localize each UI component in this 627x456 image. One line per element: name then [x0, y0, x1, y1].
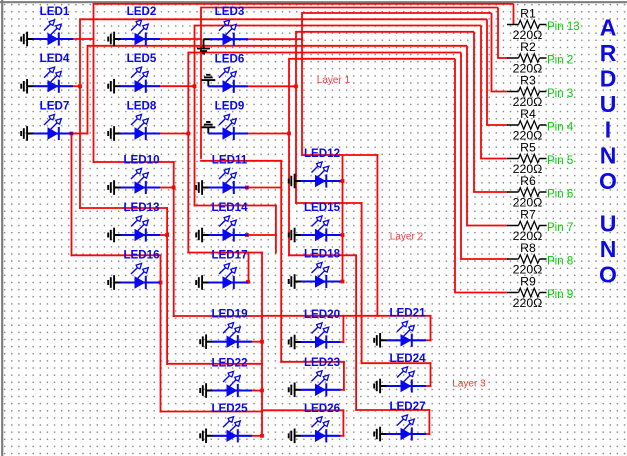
wire: ground lead (LED16)	[114, 282, 120, 284]
net N5 feeder (LED5-R5) horizontal	[195, 25, 482, 27]
wire: ground lead (LED12)	[295, 180, 301, 182]
junction dot (71.5,133.5)	[70, 132, 74, 136]
LED emission arrows (LED4)	[44, 71, 50, 77]
diode cathode bar (LED26)	[325, 429, 327, 442]
wire: cathode lead (LED26)	[301, 435, 341, 437]
LED LED9 (diode symbol with emission arrows)	[201, 100, 248, 141]
svg-text:Pin 6: Pin 6	[547, 188, 573, 200]
diode cathode bar (LED4)	[58, 80, 60, 93]
svg-text:LED27: LED27	[389, 400, 425, 413]
diode cathode bar (LED18)	[325, 275, 327, 288]
ground symbol above wire (LED6)	[207, 80, 209, 86]
ground symbol (LED4)	[20, 84, 22, 89]
wire: resistor right lead (R7)	[540, 225, 547, 227]
wire: cathode lead (LED8)	[121, 132, 161, 134]
LED emission arrows (LED13)	[131, 220, 137, 226]
net N2 feeder (LED2-R2) horizontal	[201, 7, 498, 9]
svg-text:R1: R1	[520, 7, 536, 21]
junction dot (248.0,281.8)	[246, 280, 250, 284]
diode triangle (LED20)	[315, 336, 326, 348]
wire anode stub LED7	[73, 133, 88, 135]
LED LED14 (diode symbol with emission arrows)	[196, 201, 248, 242]
ground symbol (LED17)	[195, 280, 197, 285]
svg-text:Pin 3: Pin 3	[547, 88, 573, 100]
wire through LED12 label	[301, 154, 378, 156]
LED emission arrows (LED16)	[131, 268, 137, 274]
net N9 feeder (LED9-R9) horizontal	[289, 58, 455, 60]
wire: cathode lead (LED25)	[213, 435, 253, 437]
diode cathode bar (LED6)	[233, 80, 235, 93]
wire: ground lead (LED18)	[295, 281, 301, 283]
wire through LED22 label	[166, 363, 263, 365]
svg-text:U: U	[600, 211, 617, 237]
wire vertical LED20 hook x343.4	[342, 315, 344, 343]
diode cathode bar (LED9)	[233, 127, 235, 140]
wire through LED23 label	[280, 361, 345, 363]
diode triangle (LED12)	[315, 175, 326, 187]
svg-text:LED24: LED24	[389, 352, 426, 365]
wire: cathode lead (LED2)	[121, 38, 161, 40]
LED emission arrows (LED18)	[312, 267, 318, 273]
wire vertical N2 x201	[200, 7, 202, 159]
LED LED7 (diode symbol with emission arrows)	[21, 100, 73, 141]
wire vertical LED10 chain x173.7	[173, 161, 175, 317]
diode triangle (LED23)	[315, 384, 326, 396]
net N7 feeder (LED7-R7) horizontal	[88, 45, 468, 47]
wire: resistor left lead (R4)	[507, 124, 519, 126]
LED emission arrows (LED8)	[131, 119, 137, 125]
svg-text:A: A	[600, 14, 617, 40]
LED LED12 (diode symbol with emission arrows)	[289, 147, 341, 188]
LED LED25 (diode symbol with emission arrows)	[200, 402, 252, 443]
border frame top	[0, 1, 627, 3]
svg-text:Layer 3: Layer 3	[452, 379, 486, 390]
LED LED6 (diode symbol with emission arrows)	[201, 52, 248, 93]
wire anode stub LED9	[248, 133, 290, 135]
diode triangle (LED17)	[223, 276, 234, 288]
LED LED1 (diode symbol with emission arrows)	[21, 5, 73, 46]
LED LED5 (diode symbol with emission arrows)	[108, 52, 160, 93]
wire: resistor left lead (R9)	[507, 292, 519, 294]
svg-text:I: I	[605, 117, 611, 143]
wire through LED15 label	[295, 202, 362, 204]
wire through LED14 label	[194, 205, 277, 207]
LED LED23 (diode symbol with emission arrows)	[289, 356, 341, 397]
diode triangle (LED19)	[227, 336, 238, 348]
diode triangle (LED15)	[315, 229, 326, 241]
svg-text:Pin 5: Pin 5	[547, 155, 573, 167]
resistor zigzag body (R6)	[519, 188, 540, 196]
resistor zigzag body (R1)	[519, 20, 540, 28]
wire: cathode lead (LED12)	[301, 180, 341, 182]
ground symbol (LED12)	[288, 179, 290, 184]
net N5 feeder (LED5-R5) stub to resistor	[480, 158, 507, 160]
svg-text:220Ω: 220Ω	[513, 296, 543, 310]
diode triangle (LED24)	[401, 380, 412, 392]
net N1 feeder (LED1-R1) drop	[513, 4, 515, 25]
ground symbol (LED2)	[107, 37, 109, 42]
wire vertical c4 chain x342.5	[342, 154, 344, 282]
svg-text:LED7: LED7	[40, 100, 70, 113]
LED LED26 (diode symbol with emission arrows)	[289, 402, 341, 443]
net N3 feeder (LED3-R3) drop	[491, 13, 493, 92]
wire: resistor right lead (R4)	[540, 124, 547, 126]
wire: ground lead (LED22)	[206, 390, 212, 392]
wire through LED18 label	[288, 254, 357, 256]
LED emission arrows (LED25)	[223, 421, 229, 427]
wire through LED24 label	[361, 362, 432, 364]
wire: ground lead (LED8)	[114, 133, 120, 135]
diode cathode bar (LED11)	[233, 181, 235, 194]
LED LED21 (diode symbol with emission arrows)	[374, 306, 426, 347]
wire: cathode lead (LED17)	[209, 281, 249, 283]
ground symbol above wire (LED9)	[207, 127, 209, 133]
ground symbol (LED14)	[195, 233, 197, 238]
wire: ground lead (LED10)	[114, 187, 120, 189]
wire: cathode lead (LED19)	[213, 341, 253, 343]
wire: ground lead (LED3)	[204, 38, 210, 40]
wire anode stub LED27	[426, 433, 430, 435]
wire anode stub LED12	[341, 180, 344, 182]
LED LED24 (diode symbol with emission arrows)	[374, 352, 426, 393]
svg-text:U: U	[600, 91, 617, 117]
wire anode stub LED19	[252, 341, 263, 343]
resistor zigzag body (R9)	[519, 288, 540, 296]
wire: ground lead (LED26)	[295, 435, 301, 437]
resistor zigzag body (R3)	[519, 87, 540, 95]
wire anode stub LED21	[426, 339, 431, 341]
svg-text:LED12: LED12	[304, 147, 340, 160]
wire anode stub LED26	[341, 435, 345, 437]
wire: ground lead (LED13)	[114, 234, 120, 236]
svg-text:LED4: LED4	[40, 52, 70, 65]
junction dot (342.5,235.0)	[341, 233, 345, 237]
wire anode stub LED17	[248, 282, 250, 284]
junction dot (247.0,187.5)	[245, 186, 249, 190]
wire anode stub LED13	[160, 234, 168, 236]
LED emission arrows (LED26)	[312, 421, 318, 427]
ground symbol (LED15)	[288, 233, 290, 238]
LED LED4 (diode symbol with emission arrows)	[21, 52, 73, 93]
wire vertical LED13 chain x167.1	[166, 207, 168, 365]
diode triangle (LED6)	[223, 80, 234, 92]
diode triangle (LED26)	[315, 430, 326, 442]
wire anode stub LED23	[341, 389, 345, 391]
wire vertical LED23 hook x343.9	[343, 361, 345, 391]
wire: cathode lead (LED3)	[210, 38, 249, 40]
LED LED10 (diode symbol with emission arrows)	[108, 154, 160, 195]
wire anode stub LED5	[160, 85, 195, 87]
wire anode stub LED22	[252, 390, 263, 392]
wire vertical LED24 hook x430.5	[430, 362, 432, 387]
diode cathode bar (LED21)	[411, 334, 413, 347]
LED emission arrows (LED9)	[219, 119, 225, 125]
LED emission arrows (LED1)	[44, 24, 50, 30]
wire: cathode lead (LED6)	[208, 85, 248, 87]
junction dot (167.1,235.0)	[165, 233, 169, 237]
wire: ground lead (LED1)	[27, 38, 33, 40]
wire: cathode lead (LED11)	[209, 186, 249, 188]
net N6 feeder (LED6-R6) drop	[473, 32, 475, 192]
wire: resistor right lead (R3)	[540, 91, 547, 93]
svg-text:LED1: LED1	[40, 5, 70, 18]
svg-text:Pin 4: Pin 4	[547, 121, 574, 133]
ground symbol (LED11)	[195, 185, 197, 190]
wire anode stub LED16	[160, 282, 162, 284]
wire: cathode lead (LED14)	[209, 234, 249, 236]
net N6 feeder (LED6-R6) horizontal	[296, 31, 474, 33]
LED LED11 (diode symbol with emission arrows)	[196, 154, 248, 195]
LED emission arrows (LED3)	[219, 24, 225, 30]
svg-text:LED10: LED10	[123, 154, 159, 167]
wire: cathode lead (LED23)	[301, 389, 341, 391]
diode triangle (LED21)	[401, 334, 412, 346]
junction dot (160.5,282.5)	[159, 281, 163, 285]
wire anode stub LED8	[160, 133, 189, 135]
wire: ground lead (LED15)	[295, 234, 301, 236]
junction dot (262.0,435.8)	[260, 434, 264, 438]
wire anode stub LED10	[160, 187, 175, 189]
wire through LED11 label	[200, 160, 282, 162]
wire: ground lead (LED20)	[295, 341, 301, 343]
diode triangle (LED27)	[401, 428, 412, 440]
net N4 feeder (LED4-R4) drop	[486, 19, 488, 125]
ground symbol (LED22)	[199, 388, 201, 393]
LED LED27 (diode symbol with emission arrows)	[374, 400, 426, 441]
resistor R1 220ohm with pin label	[507, 7, 580, 43]
wire vertical LED26 hook x343.4	[342, 409, 344, 436]
net N9 feeder (LED9-R9) stub to resistor	[454, 292, 507, 294]
LED emission arrows (LED27)	[397, 419, 403, 425]
net N8 feeder (LED8-R8) stub to resistor	[460, 258, 507, 260]
wire: ground lead (LED25)	[206, 435, 212, 437]
wire anode stub LED4	[73, 85, 81, 87]
ground symbol (LED16)	[107, 280, 109, 285]
svg-text:R5: R5	[520, 141, 536, 155]
junction dot (173.7,187.5)	[172, 186, 176, 190]
wire through LED10 label	[93, 161, 175, 163]
net N6 feeder (LED6-R6) stub to resistor	[473, 191, 507, 193]
wire: cathode lead (LED1)	[34, 38, 74, 40]
resistor R8 220ohm with pin label	[507, 241, 573, 277]
wire anode stub LED15	[341, 234, 344, 236]
svg-text:O: O	[599, 262, 617, 288]
diode cathode bar (LED22)	[237, 384, 239, 397]
svg-text:LED9: LED9	[215, 100, 245, 113]
wire anode stub LED20	[341, 341, 345, 343]
resistor R2 220ohm with pin label	[507, 40, 573, 76]
diode cathode bar (LED25)	[237, 429, 239, 442]
svg-text:LED26: LED26	[304, 402, 341, 415]
resistor R6 220ohm with pin label	[507, 174, 573, 210]
wire: ground lead (LED23)	[295, 389, 301, 391]
svg-text:LED14: LED14	[211, 201, 248, 214]
LED emission arrows (LED22)	[223, 376, 229, 382]
LED LED18 (diode symbol with emission arrows)	[289, 248, 341, 289]
wire vertical LED27 hook x429.4	[428, 409, 430, 435]
svg-text:Layer 2: Layer 2	[390, 231, 424, 242]
wire: cathode lead (LED7)	[34, 132, 74, 134]
net N7 feeder (LED7-R7) stub to resistor	[466, 225, 507, 227]
diode cathode bar (LED3)	[233, 33, 235, 46]
diode cathode bar (LED8)	[145, 127, 147, 140]
diode cathode bar (LED13)	[145, 228, 147, 241]
ground symbol (LED20)	[288, 340, 290, 345]
LED emission arrows (LED6)	[219, 72, 225, 78]
resistor R7 220ohm with pin label	[507, 208, 573, 244]
wire vertical N7-up x87.5	[87, 45, 89, 134]
wire through LED13 label	[79, 207, 168, 209]
svg-text:R7: R7	[520, 208, 536, 222]
LED emission arrows (LED10)	[131, 173, 137, 179]
svg-text:LED19: LED19	[211, 308, 248, 321]
wire: cathode lead (LED21)	[387, 339, 427, 341]
wire through LED26 label	[261, 409, 344, 411]
svg-text:R9: R9	[520, 275, 536, 289]
diode triangle (LED2)	[135, 33, 146, 45]
wire: resistor left lead (R3)	[507, 91, 519, 93]
diode cathode bar (LED1)	[58, 32, 60, 45]
wire through LED19 label	[173, 315, 263, 317]
junction dot (194.5,86.2)	[193, 84, 197, 88]
svg-text:R2: R2	[520, 40, 536, 54]
wire: ground lead (LED24)	[380, 385, 386, 387]
ground symbol below wire (LED3)	[203, 39, 205, 48]
resistor R3 220ohm with pin label	[507, 74, 573, 110]
wire: cathode lead (LED15)	[301, 234, 341, 236]
LED LED2 (diode symbol with emission arrows)	[108, 5, 160, 46]
wire vertical LED16 chain x160.5	[160, 254, 162, 412]
wire through LED27 label	[355, 409, 430, 411]
diode cathode bar (LED10)	[145, 181, 147, 194]
LED emission arrows (LED5)	[131, 71, 137, 77]
junction dot (80,86.2)	[78, 84, 82, 88]
wire: ground lead (LED4)	[27, 85, 33, 87]
resistor zigzag body (R7)	[519, 221, 540, 229]
wire: ground lead (LED5)	[114, 85, 120, 87]
resistor zigzag body (R8)	[519, 255, 540, 263]
LED LED3 (diode symbol with emission arrows)	[197, 5, 248, 53]
junction dot (247.0,235.0)	[245, 233, 249, 237]
resistor zigzag body (R5)	[519, 154, 540, 162]
wire: cathode lead (LED24)	[387, 385, 427, 387]
wire vertical N4 x80	[79, 18, 81, 209]
wire through LED16 label	[71, 254, 162, 256]
wire anode stub LED24	[426, 385, 431, 387]
ground symbol (LED25)	[199, 433, 201, 438]
svg-text:N: N	[600, 236, 617, 262]
wire vertical LED21 hook x430.5	[430, 315, 432, 341]
diode cathode bar (LED7)	[58, 127, 60, 140]
wire: ground lead (LED14)	[202, 234, 208, 236]
wire vertical c4-c5 link x361.6	[361, 202, 363, 364]
diode triangle (LED3)	[223, 33, 234, 45]
diode cathode bar (LED12)	[325, 174, 327, 187]
diode triangle (LED11)	[223, 181, 234, 193]
wire: cathode lead (LED5)	[121, 85, 161, 87]
wire vertical c4-c5 link x377.4	[376, 154, 378, 317]
svg-text:Pin 9: Pin 9	[547, 289, 573, 301]
LED emission arrows (LED7)	[44, 119, 50, 125]
wire: cathode lead (LED16)	[121, 281, 161, 283]
net N9 feeder (LED9-R9) drop	[454, 59, 456, 293]
junction dot (296,86.3)	[294, 84, 298, 88]
border frame left	[1, 0, 3, 456]
wire vertical N6 x296	[295, 31, 297, 204]
wire: cathode lead (LED18)	[301, 280, 341, 282]
wire: cathode lead (LED13)	[121, 234, 161, 236]
wire: resistor right lead (R9)	[540, 292, 547, 294]
diode triangle (LED8)	[135, 127, 146, 139]
svg-text:Pin 13: Pin 13	[547, 21, 580, 33]
LED emission arrows (LED14)	[219, 220, 225, 226]
LED emission arrows (LED11)	[219, 173, 225, 179]
diode cathode bar (LED19)	[237, 335, 239, 348]
diode cathode bar (LED20)	[325, 335, 327, 348]
wire: ground lead (LED27)	[380, 433, 386, 435]
wire: cathode lead (LED22)	[213, 389, 253, 391]
svg-text:LED18: LED18	[304, 248, 341, 261]
LED LED13 (diode symbol with emission arrows)	[108, 201, 160, 242]
wire: resistor right lead (R8)	[540, 258, 547, 260]
diode triangle (LED4)	[48, 80, 59, 92]
wire: resistor right lead (R5)	[540, 158, 547, 160]
svg-text:LED15: LED15	[304, 201, 341, 214]
ground symbol (LED23)	[288, 387, 290, 392]
junction dot (188.3,133.5)	[186, 132, 190, 136]
diode cathode bar (LED16)	[145, 276, 147, 289]
svg-text:R8: R8	[520, 241, 536, 255]
wire: ground lead (LED7)	[27, 133, 33, 135]
svg-text:LED16: LED16	[123, 249, 160, 262]
wire vertical N3 x302	[301, 12, 303, 156]
wire anode stub LED18	[341, 281, 344, 283]
junction dot (262.0,390.5)	[260, 389, 264, 393]
ground symbol (LED19)	[199, 339, 201, 344]
resistor R5 220ohm with pin label	[507, 141, 573, 177]
ground symbol (LED18)	[288, 279, 290, 284]
resistor R9 220ohm with pin label	[507, 275, 573, 311]
LED LED8 (diode symbol with emission arrows)	[108, 100, 160, 141]
wire: resistor left lead (R8)	[507, 258, 519, 260]
net N8 feeder (LED8-R8) drop	[460, 53, 462, 260]
diode triangle (LED1)	[48, 33, 59, 45]
LED LED15 (diode symbol with emission arrows)	[289, 201, 341, 242]
resistor R4 220ohm with pin label	[507, 107, 574, 143]
wire: resistor right lead (R2)	[540, 57, 547, 59]
svg-text:O: O	[599, 168, 617, 194]
wire: ground lead (LED2)	[114, 38, 120, 40]
wire: resistor right lead (R1)	[540, 24, 547, 26]
diode cathode bar (LED14)	[233, 228, 235, 241]
wire: resistor left lead (R1)	[507, 24, 519, 26]
resistor zigzag body (R2)	[519, 54, 540, 62]
wire: cathode lead (LED20)	[301, 341, 341, 343]
ground symbol (LED13)	[107, 233, 109, 238]
wire anode stub LED25	[252, 435, 263, 437]
diode triangle (LED22)	[227, 384, 238, 396]
svg-text:D: D	[600, 66, 617, 92]
LED emission arrows (LED2)	[131, 24, 137, 30]
wire: resistor left lead (R2)	[507, 57, 519, 59]
wire: cathode lead (LED9)	[208, 132, 248, 134]
wire vertical N7-down x71.5	[71, 133, 73, 257]
LED emission arrows (LED17)	[219, 268, 225, 274]
ground symbol (LED1)	[20, 37, 22, 42]
diode triangle (LED13)	[135, 229, 146, 241]
ground symbol (LED7)	[20, 131, 22, 136]
wire anode stub LED1	[73, 38, 94, 40]
